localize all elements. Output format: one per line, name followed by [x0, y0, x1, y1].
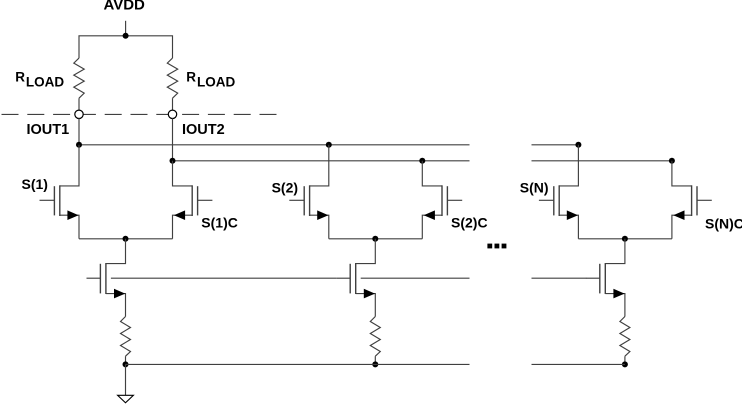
junction dot rail1 cell2 — [326, 142, 332, 148]
junction dot rail2 cell1 — [170, 158, 176, 164]
transistor Q2C gate lead — [336, 277, 350, 279]
wire RLOAD1 to IOUT1 node — [78, 98, 80, 110]
transistor QNB gate bar — [696, 186, 698, 215]
wire bias rail segment cell N — [532, 277, 587, 279]
wire resistor RN to ground rail — [624, 356, 626, 364]
resistor RLOAD1 — [74, 58, 84, 98]
transistor Q1C source arrow — [114, 289, 125, 299]
transistor Q2A channel bar — [309, 185, 311, 216]
wire ground rail — [126, 363, 470, 365]
transistor QNB source lead — [672, 215, 692, 239]
svg-text:S(N): S(N) — [520, 179, 549, 195]
transistor QNC channel bar — [604, 263, 606, 294]
svg-text:R: R — [186, 70, 196, 85]
transistor Q1B gate bar — [197, 186, 199, 215]
transistor Q1C gate bar — [99, 264, 101, 294]
transistor Q2C channel bar — [355, 263, 357, 294]
ellipsis dots between cells — [487, 244, 492, 249]
wire AVDD stub — [125, 21, 127, 36]
transistor Q2B gate bar — [446, 186, 448, 215]
transistor Q1C channel bar — [105, 263, 107, 294]
svg-text:S(1)C: S(1)C — [201, 214, 238, 230]
svg-text:LOAD: LOAD — [197, 75, 235, 90]
transistor Q1B source arrow — [174, 210, 185, 220]
transistor Q1A channel bar — [59, 185, 61, 216]
junction dot on AVDD rail — [123, 33, 129, 39]
wire resistor R1 to ground rail — [125, 356, 127, 364]
wire common source rail cell N — [578, 238, 672, 240]
transistor Q1A source lead — [60, 215, 79, 239]
transistor Q2B source arrow — [424, 210, 435, 220]
transistor Q2B source lead — [422, 215, 442, 239]
transistor Q1A gate bar — [53, 186, 55, 215]
transistor QNC source lead — [605, 294, 625, 317]
wire IOUT1 bus rail segment cell N — [532, 144, 579, 146]
transistor Q1B source lead — [173, 215, 193, 239]
junction dot rail2 cellN — [669, 158, 675, 164]
junction dot common source cell N — [622, 236, 628, 242]
junction dot ground rail cell 2 — [372, 361, 378, 367]
transistor QNC gate lead — [586, 277, 600, 279]
junction dot common source cell 1 — [123, 236, 129, 242]
wire IOUT2 bus rail — [173, 160, 470, 162]
transistor QNA left switch gate lead — [539, 199, 554, 201]
junction dot rail1 cell1 — [76, 142, 82, 148]
transistor Q1C source lead — [106, 294, 126, 317]
ground symbol — [118, 395, 134, 403]
resistor R2 tail — [370, 317, 380, 357]
junction dot rail2 cell2 — [419, 158, 425, 164]
wire resistor R2 to ground rail — [374, 356, 376, 364]
wire IOUT1 bus rail — [79, 144, 470, 146]
svg-text:LOAD: LOAD — [26, 75, 64, 90]
junction dot common source cell 2 — [372, 236, 378, 242]
svg-text:IOUT2: IOUT2 — [182, 122, 225, 138]
transistor Q2A left switch gate lead — [289, 199, 304, 201]
wire to ground symbol — [125, 364, 127, 395]
transistor QNA source lead — [559, 215, 578, 239]
resistor RLOAD2 — [167, 58, 177, 98]
transistor Q2A drain lead to IOUT1 rail — [310, 145, 329, 186]
node IOUT2 terminal circle — [168, 110, 176, 118]
transistor QNB drain lead to IOUT2 rail — [672, 161, 692, 186]
transistor Q1B right switch gate lead — [198, 199, 213, 201]
transistor QNB channel bar — [691, 185, 693, 216]
transistor Q1C current source drain lead — [106, 239, 126, 264]
svg-text:S(2): S(2) — [272, 180, 298, 196]
wire common source rail cell 1 — [79, 238, 173, 240]
transistor Q2C source arrow — [364, 289, 375, 299]
svg-text:S(2)C: S(2)C — [451, 215, 488, 231]
node IOUT1 terminal circle — [75, 110, 83, 118]
transistor QNA gate bar — [553, 186, 555, 215]
wire AVDD rail with corners — [79, 36, 173, 58]
transistor Q2A gate bar — [303, 186, 305, 215]
resistor R1 tail — [121, 317, 131, 357]
dashed output boundary line — [2, 113, 279, 115]
transistor Q2A source arrow — [317, 210, 328, 220]
wire bias rail segment 2 — [361, 277, 470, 279]
wire IOUT2 to rail — [172, 118, 174, 160]
junction dot ground rail cell 1 — [123, 361, 129, 367]
transistor Q1C gate lead — [87, 277, 101, 279]
wire RLOAD2 to IOUT2 node — [172, 98, 174, 110]
junction dot ground rail cell N — [622, 361, 628, 367]
wire IOUT2 bus rail segment cell N — [532, 160, 672, 162]
transistor QNA source arrow — [567, 210, 578, 220]
transistor Q1B drain lead to IOUT2 rail — [173, 161, 193, 186]
transistor Q1A drain lead to IOUT1 rail — [60, 145, 79, 186]
svg-text:S(1): S(1) — [22, 176, 48, 192]
transistor Q2C current source drain lead — [356, 239, 376, 264]
transistor QNC source arrow — [613, 289, 624, 299]
transistor QNC current source drain lead — [605, 239, 625, 264]
transistor Q2A source lead — [310, 215, 329, 239]
transistor Q1A source arrow — [67, 210, 78, 220]
transistor QNA channel bar — [558, 185, 560, 216]
svg-text:IOUT1: IOUT1 — [27, 122, 70, 138]
transistor Q1B channel bar — [191, 185, 193, 216]
wire common source rail cell 2 — [329, 238, 423, 240]
svg-text:R: R — [15, 70, 25, 85]
junction dot rail1 cellN — [575, 142, 581, 148]
transistor QNB right switch gate lead — [697, 199, 712, 201]
transistor Q2C source lead — [356, 294, 376, 317]
transistor Q2B channel bar — [441, 185, 443, 216]
svg-text:S(N)C: S(N)C — [705, 216, 742, 232]
wire ground rail segment cell N — [532, 363, 625, 365]
transistor QNB source arrow — [673, 210, 684, 220]
transistor Q2B drain lead to IOUT2 rail — [422, 161, 442, 186]
transistor Q1A left switch gate lead — [40, 199, 55, 201]
wire IOUT1 to rail — [78, 118, 80, 144]
svg-text:AVDD: AVDD — [104, 0, 146, 13]
resistor RN tail — [620, 317, 630, 357]
transistor Q2C gate bar — [349, 264, 351, 294]
transistor QNA drain lead to IOUT1 rail — [559, 145, 578, 186]
wire bias rail segment 1 — [111, 277, 336, 279]
transistor QNC gate bar — [599, 264, 601, 294]
transistor Q2B right switch gate lead — [447, 199, 462, 201]
